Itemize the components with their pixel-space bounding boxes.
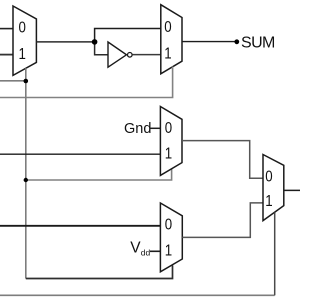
wire mux M4 output to mux M5 input 1 — [182, 203, 263, 238]
wire node N1 to mux M2 input 0 — [95, 29, 161, 42]
mux M4 (bottom 2:1 mux) — [160, 203, 182, 272]
label Vdd — [130, 239, 150, 257]
svg-text:SUM: SUM — [241, 35, 275, 52]
svg-text:0: 0 — [165, 217, 172, 234]
wire mux M5 select stub — [274, 213, 276, 296]
wire select S0 from left edge to mux M1 select node — [0, 80, 26, 82]
svg-text:dd: dd — [141, 248, 151, 258]
junction node N1 — [92, 39, 98, 45]
svg-text:0: 0 — [265, 169, 272, 186]
svg-text:1: 1 — [165, 242, 172, 259]
svg-text:1: 1 — [265, 193, 272, 210]
svg-text:V: V — [130, 239, 141, 256]
wire select S2 to mux M5 select pin — [0, 294, 275, 296]
wire input B to mux M1 input 1 — [0, 54, 13, 56]
svg-text:0: 0 — [19, 20, 26, 37]
wire Gnd to mux M3 input 0 — [150, 127, 160, 129]
wire inverter U1 output to mux M2 input 1 — [132, 54, 160, 56]
wire mux M3 output to mux M5 input 0 — [182, 141, 263, 179]
wire select bus bend to mux M4 select pin — [26, 265, 173, 278]
svg-text:0: 0 — [165, 120, 172, 137]
wire mux M2 output to SUM node — [182, 41, 237, 43]
svg-text:1: 1 — [19, 46, 26, 63]
junction node on select bus at branch — [24, 178, 28, 182]
wire input A to mux M1 input 0 — [0, 28, 13, 30]
mux M5 (right output 2:1 mux) — [263, 155, 284, 221]
mux M3 (middle 2:1 mux) — [160, 107, 182, 176]
svg-text:Gnd: Gnd — [124, 121, 151, 137]
wire select S1 to mux M2 select pin — [0, 67, 173, 98]
wire mux M1 output to node N1 — [36, 41, 94, 43]
wire Vdd to mux M4 input 1 — [150, 250, 160, 252]
wire select branch to mux M3 select pin — [26, 169, 172, 180]
svg-text:1: 1 — [164, 45, 171, 62]
svg-text:0: 0 — [164, 19, 171, 36]
wire input D to mux M4 input 0 — [0, 225, 160, 227]
wire mux M5 output to right edge — [284, 189, 300, 191]
wire node N1 to inverter U1 input — [95, 42, 108, 55]
mux M1 (top-left 2:1 mux) — [13, 6, 36, 75]
mux M2 (top-right 2:1 mux, SUM output) — [161, 5, 182, 74]
svg-text:1: 1 — [165, 146, 172, 163]
junction node at mux M1 select — [24, 79, 29, 84]
node SUM terminal dot — [234, 39, 239, 44]
inverter U1 — [108, 42, 132, 67]
wire select bus vertical from mux M1 select — [25, 68, 27, 278]
wire input C to mux M3 input 1 — [0, 153, 160, 155]
